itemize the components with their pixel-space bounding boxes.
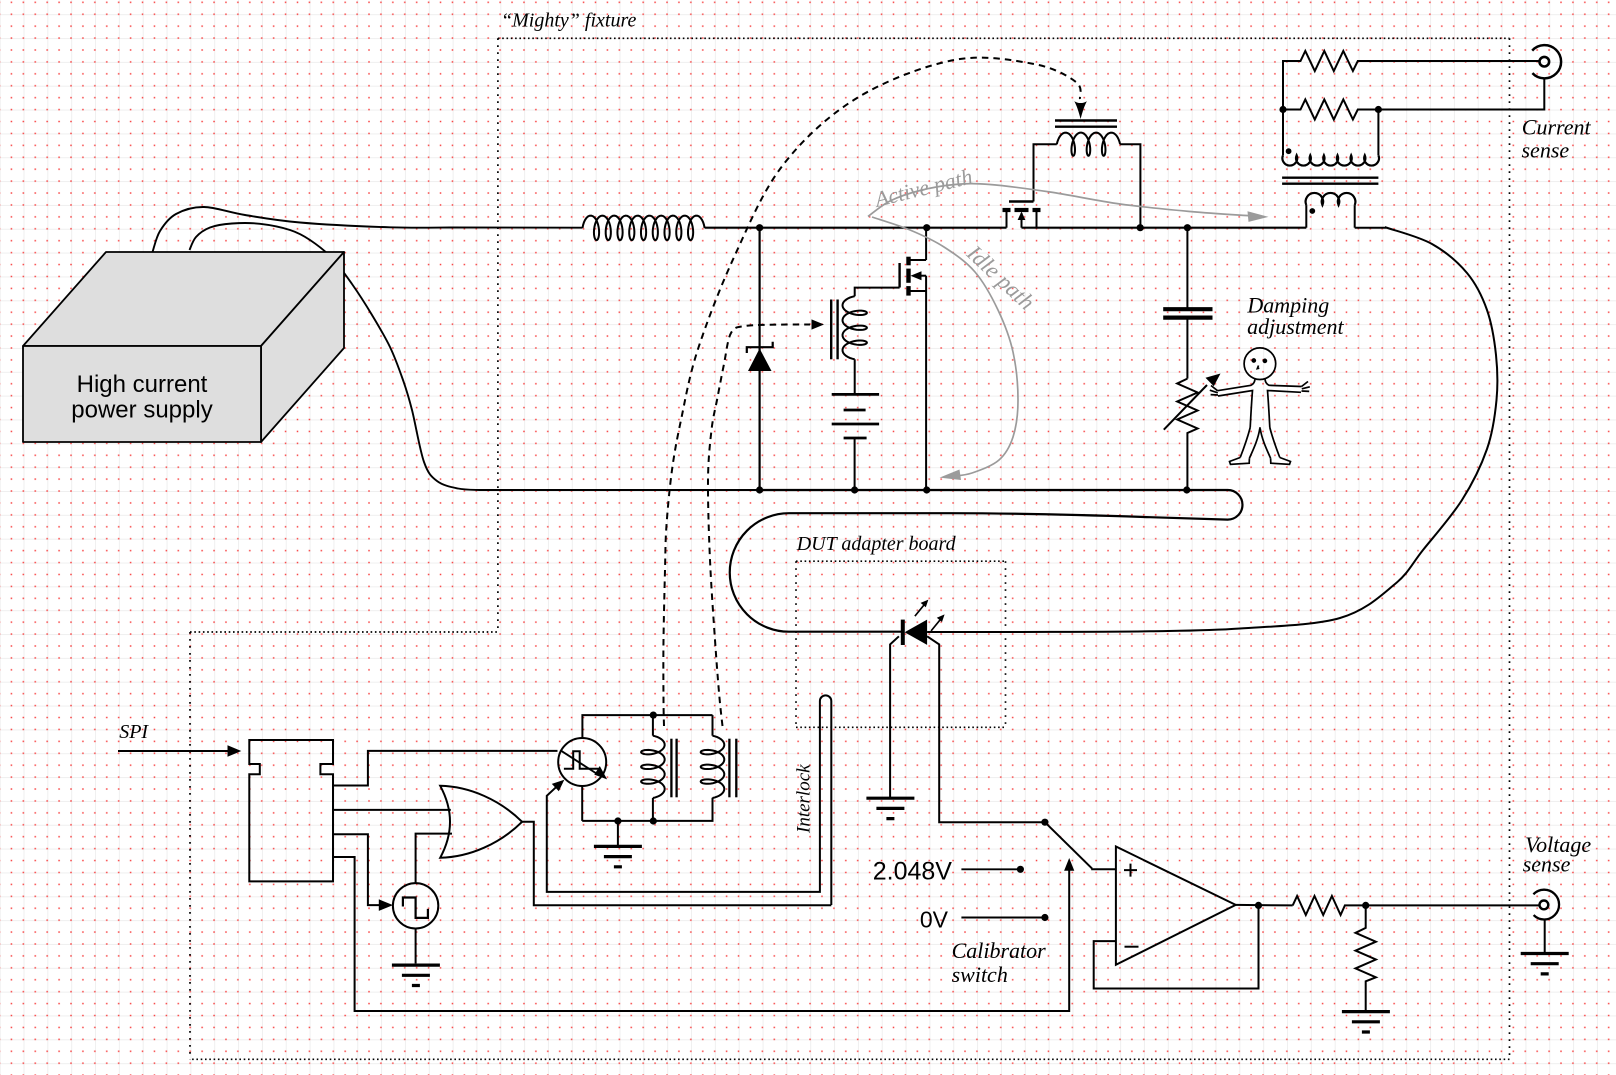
transistor Q1 (MOSFET in rail): [1003, 202, 1041, 228]
dashed drive path to T1: [663, 58, 1080, 726]
wire top rail T3 to DUT LED (big loop): [927, 228, 1497, 633]
svg-text:High current: High current: [77, 371, 208, 398]
arrowhead into T1: [1074, 101, 1087, 119]
opto transformer core 2: [728, 739, 730, 798]
svg-text:“Mighty” fixture: “Mighty” fixture: [501, 10, 636, 32]
node R2 right junction: [1375, 106, 1382, 113]
svg-text:Current: Current: [1522, 115, 1592, 140]
phase dot T3 primary: [1309, 208, 1315, 214]
wire OR output: [522, 822, 831, 905]
LED D2 (DUT): [901, 620, 905, 645]
wire interlock loop (OR output via interlock to U5): [547, 695, 832, 905]
diode D1 (Schottky): [748, 349, 772, 372]
node 2.048V contact: [1017, 866, 1024, 873]
DUT adapter board boundary (dotted border): [796, 561, 1006, 727]
resistor R4: [1356, 905, 1376, 1011]
wire op-amp output: [1236, 904, 1293, 907]
wire OR input B from pulse gen: [416, 834, 452, 884]
transformer T3 secondary winding: [1282, 110, 1284, 156]
node junction on rail at damping cap: [1184, 224, 1191, 231]
pulse generator source: [393, 883, 438, 928]
ground under R4: [1342, 1012, 1390, 1032]
svg-text:switch: switch: [952, 962, 1008, 987]
wire from power supply (-) to bottom rail: [190, 223, 760, 490]
resistor R3: [1293, 896, 1540, 915]
wire voltage sense ground: [1544, 920, 1546, 954]
arrowhead into T2: [812, 319, 825, 329]
resistor R1: [1283, 51, 1540, 110]
capacitor C1 (damping): [1186, 228, 1188, 308]
wire top rail (Q1 to T3): [1022, 227, 1307, 229]
wire SPI input arrow: [118, 750, 233, 752]
wire from power supply (+) to top rail: [153, 207, 583, 252]
node junction on rail at Q2 drain: [923, 224, 930, 231]
node divider: [1362, 902, 1369, 909]
svg-text:sense: sense: [1522, 138, 1570, 163]
node bottom rail at diode: [756, 486, 763, 493]
resistor R2: [1283, 100, 1378, 120]
op-amp U6: [1116, 847, 1236, 965]
OR gate U4: [440, 786, 522, 858]
wire register to pulse generator: [333, 834, 385, 905]
wire register to calibrator switch: [333, 857, 1069, 1011]
gray arrow Idle path: [872, 217, 1018, 476]
svg-text:adjustment: adjustment: [1247, 314, 1344, 339]
opto transformer winding 1: [652, 715, 654, 736]
opto transformer core 1: [670, 739, 672, 798]
transformer T1 core: [1055, 119, 1117, 121]
transformer T2 core: [830, 300, 832, 360]
dashed drive path to T2: [708, 324, 810, 726]
node bottom rail at Q2 source: [923, 486, 930, 493]
node opto top: [650, 712, 657, 719]
svg-text:power supply: power supply: [71, 397, 212, 424]
node opto bottom w1: [650, 817, 657, 824]
transformer T3 primary winding: [1306, 193, 1356, 205]
inductor L1 (series choke): [583, 216, 705, 241]
transformer T2 winding: [843, 296, 867, 359]
opto transformer winding 2: [712, 715, 714, 736]
rheostat R5 (damping adjust): [1177, 379, 1197, 490]
wire 2.048V: [961, 868, 1020, 870]
node bottom rail at battery: [851, 486, 858, 493]
svg-text:2.048V: 2.048V: [873, 858, 953, 886]
connector Voltage sense (coax): [1533, 890, 1559, 920]
node switch common: [1041, 819, 1048, 826]
svg-text:Interlock: Interlock: [794, 764, 815, 834]
wire diode branch: [758, 228, 760, 490]
transformer T3 core: [1282, 176, 1378, 178]
wire feedback: [1094, 905, 1259, 988]
node opto bottom ground: [614, 817, 621, 824]
ground under voltage sense: [1521, 954, 1569, 974]
pulse transistor / one-shot U5: [558, 738, 606, 786]
svg-text:DUT adapter board: DUT adapter board: [796, 533, 957, 555]
wire 0V: [961, 917, 1045, 919]
connector Current sense (coax): [1532, 45, 1561, 78]
wire top rail (L1 to Q1): [705, 227, 1007, 229]
wire pulse gen to ground: [415, 929, 417, 964]
node op-amp output: [1255, 902, 1262, 909]
LED light arrows: [915, 603, 926, 616]
SPI register / connector block U3: [249, 740, 333, 881]
transformer T1 winding: [1034, 144, 1057, 201]
wire R2 to current sense: [1378, 78, 1544, 110]
phase dot T3 secondary: [1286, 148, 1292, 154]
transistor Q2 (MOSFET): [900, 228, 927, 490]
opto transformer top rail: [582, 715, 712, 738]
high current power supply box: [23, 252, 344, 442]
gray arrow Active path: [868, 184, 1250, 217]
switch lever: [1045, 822, 1092, 869]
wire register to pulse transistor: [333, 751, 558, 786]
svg-text:Calibrator: Calibrator: [952, 938, 1047, 963]
wire switch to op-amp +: [1092, 868, 1116, 871]
wire to ground: [617, 821, 619, 846]
ground under pulse generator: [392, 965, 440, 985]
node junction on rail at T1: [1137, 224, 1144, 231]
node bottom rail at damping: [1183, 486, 1190, 493]
svg-text:sense: sense: [1523, 852, 1571, 877]
battery / cell stack: [832, 393, 879, 396]
wire register to OR input A: [333, 809, 451, 811]
ground under LED: [889, 797, 891, 799]
node junction on rail at diode: [756, 224, 763, 231]
stick figure (damping adjustment person): [1210, 348, 1310, 464]
opto transformer bottom rail: [582, 798, 712, 821]
node R1/R2 left junction: [1279, 106, 1286, 113]
node 0V contact: [1041, 914, 1048, 921]
wire U5 to opto rail: [581, 786, 583, 821]
"Mighty" fixture boundary (dotted border): [190, 38, 1510, 1059]
wire bottom rail with U-turn and loop to LED: [730, 490, 1243, 632]
svg-text:0V: 0V: [920, 907, 949, 933]
svg-text:SPI: SPI: [119, 721, 149, 743]
ground under opto: [594, 846, 642, 866]
